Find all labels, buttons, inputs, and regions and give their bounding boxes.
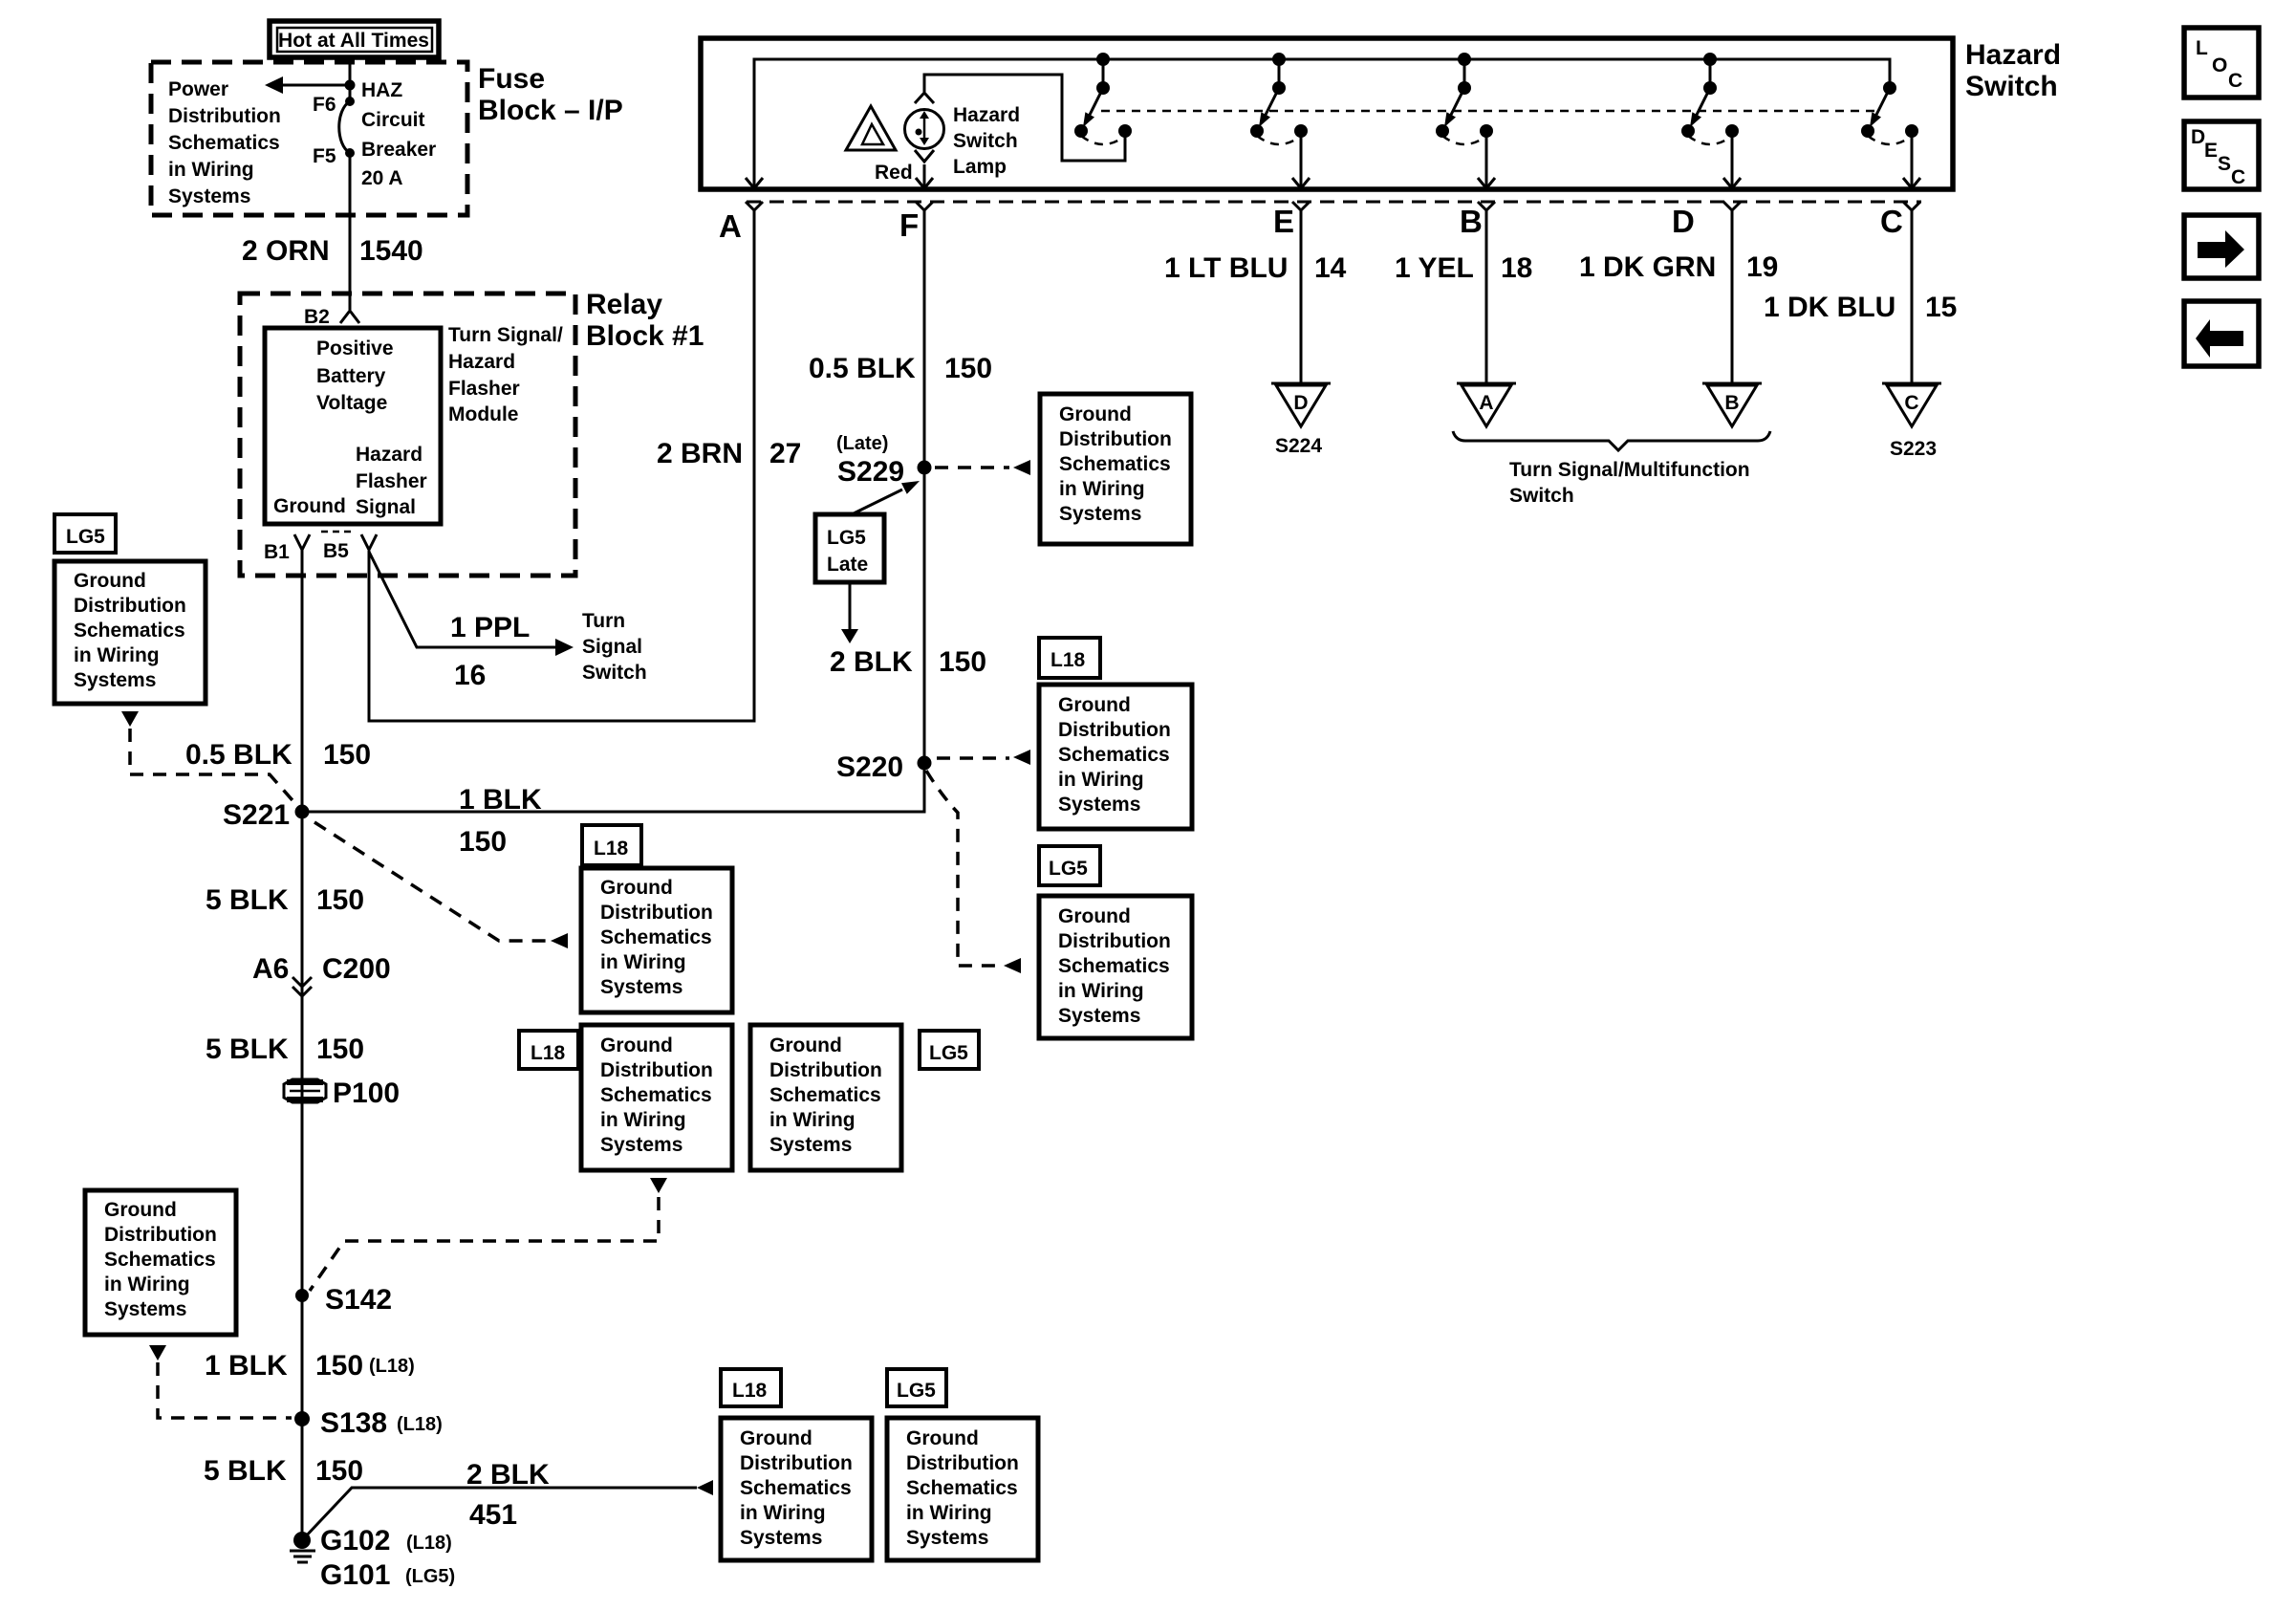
svg-text:in Wiring: in Wiring (769, 1109, 856, 1131)
label Relay Block #1 (586, 289, 704, 352)
svg-text:S223: S223 (1890, 438, 1937, 460)
svg-text:150: 150 (323, 739, 371, 771)
svg-text:Systems: Systems (104, 1298, 186, 1320)
label HAZ Circuit Breaker 20 A (361, 79, 436, 189)
svg-text:15: 15 (1925, 292, 1957, 323)
svg-text:0.5 BLK: 0.5 BLK (185, 739, 292, 771)
svg-text:Red: Red (875, 162, 913, 184)
svg-text:Switch: Switch (1965, 71, 2058, 102)
svg-text:S224: S224 (1275, 435, 1322, 457)
fuse block dashed box (151, 62, 467, 215)
label box LG5 (left) (54, 514, 116, 553)
wire 2 BLK 451 branch (302, 1480, 713, 1540)
svg-text:B1: B1 (264, 541, 290, 563)
svg-text:S: S (2218, 153, 2231, 175)
svg-text:Turn Signal/Multifunction: Turn Signal/Multifunction (1509, 459, 1750, 481)
svg-text:in Wiring: in Wiring (168, 159, 254, 181)
off-page triangle C (S223) (1882, 383, 1941, 426)
svg-text:2 BLK: 2 BLK (466, 1459, 550, 1491)
svg-text:Breaker: Breaker (361, 139, 436, 161)
svg-text:S142: S142 (325, 1284, 392, 1316)
svg-text:Systems: Systems (1058, 794, 1140, 816)
label Fuse Block - I/P (478, 63, 623, 126)
svg-text:F6: F6 (313, 94, 336, 116)
icon box LOC (2184, 28, 2259, 98)
svg-text:Schematics: Schematics (104, 1249, 216, 1271)
svg-text:Positive: Positive (316, 337, 394, 359)
svg-text:Schematics: Schematics (1059, 453, 1171, 475)
svg-text:E: E (1273, 204, 1294, 239)
svg-text:451: 451 (469, 1499, 517, 1531)
svg-text:A: A (719, 208, 742, 244)
off-page triangle A (1457, 383, 1516, 426)
svg-text:Schematics: Schematics (740, 1477, 852, 1499)
switch pole S1 lamp (1074, 59, 1132, 144)
wire 1 YEL 18 (pin B) (1485, 210, 1488, 382)
svg-text:L18: L18 (531, 1042, 566, 1064)
svg-text:Signal: Signal (356, 496, 416, 518)
svg-text:Distribution: Distribution (906, 1452, 1019, 1474)
svg-text:in Wiring: in Wiring (1058, 980, 1144, 1002)
svg-text:D: D (1672, 204, 1695, 239)
arrow from left box down (121, 711, 139, 727)
hazard switch box (701, 38, 1953, 189)
label 5 BLK 150 (206, 884, 364, 916)
svg-text:Ground: Ground (104, 1199, 177, 1221)
lamp connector Red (875, 150, 934, 188)
svg-text:Late: Late (827, 554, 868, 576)
note Power Distribution Schematics in Wiring Systems (168, 78, 281, 207)
label box LG5 Late (815, 514, 884, 582)
label box LG5 (mid lower) (920, 1031, 979, 1069)
icon box DESC (2184, 121, 2259, 189)
label Hazard Switch (1965, 39, 2061, 102)
wire 1 DK BLU 15 (pin C) (1911, 210, 1914, 382)
svg-text:L: L (2196, 37, 2208, 59)
svg-text:Schematics: Schematics (1058, 744, 1170, 766)
svg-text:B2: B2 (304, 306, 330, 328)
wire internal bus from pin A (754, 59, 1890, 188)
svg-text:Systems: Systems (740, 1527, 822, 1549)
svg-text:in Wiring: in Wiring (600, 1109, 686, 1131)
svg-text:Schematics: Schematics (906, 1477, 1018, 1499)
arrow from bottom left box down (149, 1345, 166, 1361)
svg-text:Ground: Ground (74, 570, 146, 592)
svg-text:Systems: Systems (600, 976, 682, 998)
svg-text:Switch: Switch (1509, 485, 1574, 507)
svg-text:Distribution: Distribution (1058, 719, 1171, 741)
svg-text:in Wiring: in Wiring (1058, 769, 1144, 791)
svg-text:O: O (2212, 54, 2227, 76)
svg-text:Hazard: Hazard (356, 444, 422, 466)
svg-text:Fuse: Fuse (478, 63, 545, 95)
svg-text:Flasher: Flasher (356, 470, 427, 492)
svg-text:C: C (2228, 70, 2242, 92)
svg-text:Distribution: Distribution (1059, 428, 1172, 450)
label box L18 (right) (1039, 638, 1100, 678)
splice S138 (L18) (294, 1407, 443, 1439)
svg-text:Schematics: Schematics (600, 926, 712, 948)
label 2 BLK 150 (830, 646, 986, 678)
svg-text:20 A: 20 A (361, 167, 403, 189)
svg-text:Distribution: Distribution (1058, 930, 1171, 952)
svg-text:B5: B5 (323, 540, 349, 562)
wire arrow to power distribution (265, 76, 356, 94)
svg-text:Ground: Ground (1058, 905, 1131, 927)
svg-text:Ground: Ground (769, 1034, 842, 1056)
svg-text:150: 150 (315, 1455, 363, 1487)
svg-text:2 BLK: 2 BLK (830, 646, 913, 678)
pin F5 (313, 145, 355, 167)
svg-text:1 PPL: 1 PPL (450, 612, 530, 643)
svg-text:14: 14 (1314, 252, 1347, 284)
dashed reference to S138 (158, 1362, 292, 1418)
svg-text:in Wiring: in Wiring (600, 951, 686, 973)
svg-text:2 ORN: 2 ORN (242, 235, 330, 267)
svg-text:C200: C200 (322, 953, 391, 985)
dashed reference S220 to LG5 ground distribution (926, 771, 1021, 973)
ground distribution box (mid upper L18) (581, 868, 732, 1012)
svg-text:Ground: Ground (1058, 694, 1131, 716)
svg-text:C: C (1880, 204, 1903, 239)
svg-text:Distribution: Distribution (168, 105, 281, 127)
relay block dashed box (240, 294, 575, 576)
svg-text:5 BLK: 5 BLK (206, 884, 289, 916)
svg-text:Signal: Signal (582, 636, 642, 658)
svg-text:P100: P100 (333, 1078, 400, 1109)
wire switch outputs to pins E B D C (1292, 131, 1310, 188)
svg-text:Systems: Systems (1058, 1005, 1140, 1027)
svg-text:5 BLK: 5 BLK (204, 1455, 287, 1487)
pin D connector (1672, 202, 1741, 239)
label box LG5 (right) (1039, 846, 1100, 885)
svg-text:D: D (2191, 126, 2205, 148)
label 2 BRN 27 (657, 438, 801, 469)
svg-text:150: 150 (315, 1350, 363, 1382)
svg-text:(L18): (L18) (369, 1356, 415, 1377)
svg-text:B: B (1724, 392, 1739, 414)
ground distribution box (bottom left) (85, 1190, 236, 1335)
svg-text:2 BRN: 2 BRN (657, 438, 743, 469)
grommet P100 (284, 1078, 400, 1109)
svg-text:B: B (1460, 204, 1483, 239)
pin F connector (899, 202, 933, 243)
svg-text:150: 150 (316, 884, 364, 916)
switch pole S2 E (1250, 59, 1308, 144)
svg-text:Switch: Switch (582, 662, 647, 684)
svg-text:18: 18 (1501, 252, 1532, 284)
label Hazard Switch Lamp (953, 104, 1020, 178)
svg-text:Distribution: Distribution (600, 1059, 713, 1081)
svg-text:Ground: Ground (600, 1034, 673, 1056)
svg-text:19: 19 (1746, 251, 1778, 283)
svg-text:S229: S229 (837, 456, 904, 488)
wire from hot feed to breaker (349, 56, 352, 101)
pin C connector (1880, 202, 1920, 239)
pin E connector (1273, 202, 1310, 239)
label 0.5 BLK 150 (B1) (185, 739, 371, 771)
dashed reference to S142 (310, 1197, 659, 1291)
svg-text:C: C (2231, 166, 2245, 188)
svg-text:Lamp: Lamp (953, 156, 1007, 178)
svg-text:Block – I/P: Block – I/P (478, 95, 623, 126)
svg-text:E: E (2204, 140, 2218, 162)
wire 2 ORN 1540 (349, 153, 352, 310)
pin B1 connector (264, 534, 310, 563)
svg-text:Systems: Systems (74, 669, 156, 691)
svg-text:L18: L18 (732, 1380, 768, 1402)
svg-text:Voltage: Voltage (316, 392, 387, 414)
svg-text:F: F (899, 207, 919, 243)
svg-text:Ground: Ground (600, 877, 673, 899)
svg-text:Ground: Ground (273, 495, 346, 517)
svg-text:S138: S138 (320, 1407, 387, 1439)
svg-text:1 LT BLU: 1 LT BLU (1164, 252, 1288, 284)
pin B2 connector (304, 306, 359, 328)
ground distribution box (bottom LG5) (887, 1418, 1038, 1560)
dashed reference S221 to L18 box (314, 822, 568, 948)
svg-text:Schematics: Schematics (769, 1084, 881, 1106)
svg-text:Ground: Ground (740, 1427, 812, 1449)
svg-text:Distribution: Distribution (600, 902, 713, 924)
svg-text:D: D (1293, 392, 1308, 414)
pin A connector (719, 202, 763, 244)
svg-text:Schematics: Schematics (168, 132, 280, 154)
svg-text:Flasher: Flasher (448, 378, 520, 400)
ground distribution box (S220 L18 ref) (1039, 685, 1192, 829)
label Hazard Flasher Signal (356, 444, 427, 518)
off-page triangle B (1702, 383, 1762, 426)
switch pole S3 B (1436, 59, 1493, 144)
svg-text:Ground: Ground (906, 1427, 979, 1449)
label 5 BLK 150 (3) (204, 1455, 363, 1487)
svg-text:Hazard: Hazard (953, 104, 1020, 126)
node Hot at All Times feed box (270, 21, 439, 57)
wire 1 LT BLU 14 (pin E) (1300, 210, 1303, 382)
svg-text:16: 16 (454, 660, 486, 691)
svg-text:1 BLK: 1 BLK (205, 1350, 288, 1382)
svg-text:Distribution: Distribution (104, 1224, 217, 1246)
label box L18 (mid upper) (582, 825, 641, 865)
off-page triangle D (S224) (1271, 383, 1331, 426)
connector dashed line below hazard switch (747, 201, 1921, 204)
svg-text:in Wiring: in Wiring (74, 644, 160, 666)
svg-text:1 YEL: 1 YEL (1395, 252, 1474, 284)
label Turn Signal Switch (582, 610, 647, 684)
svg-text:Hot at All Times: Hot at All Times (278, 30, 429, 52)
svg-text:150: 150 (316, 1034, 364, 1065)
svg-text:LG5: LG5 (827, 527, 866, 549)
svg-text:Systems: Systems (168, 185, 250, 207)
svg-text:in Wiring: in Wiring (104, 1274, 190, 1295)
wire 1 PPL 16 to turn signal switch (369, 552, 574, 656)
svg-text:Schematics: Schematics (600, 1084, 712, 1106)
brace turn signal/multifunction switch (1453, 431, 1770, 450)
svg-text:LG5: LG5 (929, 1042, 968, 1064)
svg-text:S220: S220 (836, 751, 903, 783)
svg-text:LG5: LG5 (897, 1380, 936, 1402)
svg-text:Ground: Ground (1059, 403, 1132, 425)
svg-text:27: 27 (769, 438, 801, 469)
svg-text:150: 150 (939, 646, 986, 678)
wire 2 BRN 27 from hazard switch pin A to B5 (369, 210, 754, 721)
svg-text:Circuit: Circuit (361, 109, 425, 131)
svg-text:A6: A6 (252, 953, 289, 985)
svg-text:LG5: LG5 (66, 526, 105, 548)
ground distribution box (S229 ref) (1040, 394, 1191, 544)
label 0.5 BLK 150 (809, 353, 992, 384)
svg-text:in Wiring: in Wiring (1059, 478, 1145, 500)
svg-text:Turn Signal/: Turn Signal/ (448, 324, 563, 346)
svg-text:Hazard: Hazard (448, 351, 515, 373)
svg-text:(LG5): (LG5) (405, 1566, 455, 1587)
svg-text:Power: Power (168, 78, 228, 100)
label 1 BLK 150 (459, 784, 542, 858)
svg-text:(L18): (L18) (406, 1533, 452, 1554)
ground distribution box (mid lower L18) (581, 1025, 732, 1170)
dashed reference to S221 (130, 729, 299, 808)
hazard switch lamp (905, 93, 944, 149)
svg-text:Systems: Systems (1059, 503, 1141, 525)
svg-text:L18: L18 (1051, 649, 1086, 671)
svg-text:1 DK BLU: 1 DK BLU (1764, 292, 1895, 323)
icon box left arrow (2184, 301, 2259, 366)
label Turn Signal/Hazard Flasher Module (448, 324, 563, 425)
svg-text:G102: G102 (320, 1525, 390, 1557)
icon box right arrow (2184, 215, 2259, 278)
svg-text:5 BLK: 5 BLK (206, 1034, 289, 1065)
pin B5 connector (321, 532, 377, 562)
ground G102 G101 (290, 1525, 455, 1591)
arrow LG5 Late down to 2 BLK (841, 582, 858, 643)
svg-text:Block #1: Block #1 (586, 320, 704, 352)
svg-text:Distribution: Distribution (769, 1059, 882, 1081)
svg-text:Schematics: Schematics (1058, 955, 1170, 977)
svg-text:A: A (1479, 392, 1493, 414)
svg-text:Hazard: Hazard (1965, 39, 2061, 71)
pin B connector (1460, 202, 1495, 239)
wire lamp to switch S1 right contact (924, 75, 1125, 161)
svg-text:C: C (1904, 392, 1918, 414)
svg-text:Distribution: Distribution (74, 595, 186, 617)
splice S229 (Late) (836, 433, 932, 488)
switch pole S4 D (1681, 59, 1739, 144)
svg-text:Switch: Switch (953, 130, 1018, 152)
svg-text:Module: Module (448, 403, 519, 425)
switch pole S5 C (1861, 59, 1918, 144)
turn signal hazard flasher module box (265, 328, 441, 524)
svg-text:in Wiring: in Wiring (740, 1502, 826, 1524)
svg-text:1 BLK: 1 BLK (459, 784, 542, 816)
label 2 ORN 1540 (242, 235, 423, 267)
svg-text:F5: F5 (313, 145, 336, 167)
svg-text:Systems: Systems (769, 1134, 852, 1156)
label 5 BLK 150 (2) (206, 1034, 364, 1065)
splice S142 (295, 1284, 392, 1316)
wire 0.5 BLK 150 pin F down to S221 (302, 210, 924, 812)
svg-text:150: 150 (944, 353, 992, 384)
svg-text:HAZ: HAZ (361, 79, 402, 101)
label Positive Battery Voltage (316, 337, 394, 414)
svg-text:(Late): (Late) (836, 433, 888, 454)
switch linkage dashed line (1101, 110, 1879, 113)
wire B1 ground wire down (301, 550, 304, 1540)
svg-text:LG5: LG5 (1049, 858, 1088, 880)
label box L18 (mid lower) (519, 1031, 578, 1069)
circuit breaker HAZ 20 A (339, 101, 350, 153)
svg-text:0.5 BLK: 0.5 BLK (809, 353, 916, 384)
svg-text:Systems: Systems (600, 1134, 682, 1156)
svg-text:Turn: Turn (582, 610, 625, 632)
ground distribution box (S220 LG5 ref) (1039, 896, 1192, 1038)
label 1 BLK 150 (L18) (205, 1350, 415, 1382)
svg-text:1 DK GRN: 1 DK GRN (1579, 251, 1716, 283)
svg-text:(L18): (L18) (397, 1414, 443, 1435)
ground distribution box (bottom L18) (721, 1418, 872, 1560)
label box LG5 (bottom) (887, 1369, 946, 1406)
pin F6 (313, 94, 355, 116)
svg-text:Systems: Systems (906, 1527, 988, 1549)
svg-text:Distribution: Distribution (740, 1452, 853, 1474)
splice S220 (836, 751, 932, 783)
wire 1 DK GRN 19 (pin D) (1731, 210, 1734, 382)
dashed reference S220 to L18 ground distribution (937, 750, 1030, 765)
svg-text:G101: G101 (320, 1559, 390, 1591)
ground distribution box (mid lower LG5) (750, 1025, 901, 1170)
svg-text:S221: S221 (223, 799, 290, 831)
splice S221 (223, 799, 310, 831)
svg-text:Schematics: Schematics (74, 620, 185, 642)
dashed reference S229 to ground distribution (935, 460, 1030, 475)
warning triangle icon (846, 106, 896, 150)
label 1 PPL 16 (450, 612, 530, 691)
svg-text:Relay: Relay (586, 289, 662, 320)
svg-text:Battery: Battery (316, 365, 386, 387)
svg-text:150: 150 (459, 826, 507, 858)
arrow LG5 Late to S229 (852, 481, 920, 514)
svg-text:in Wiring: in Wiring (906, 1502, 992, 1524)
connector C200 pin A6 (252, 953, 391, 996)
label box L18 (bottom) (721, 1369, 781, 1406)
svg-text:1540: 1540 (359, 235, 423, 267)
ground distribution box (left LG5) (54, 561, 206, 704)
svg-text:L18: L18 (594, 838, 629, 860)
wire pin A arrow inside box (746, 178, 763, 188)
label 2 BLK 451 (466, 1459, 550, 1531)
arrow from mid lower box down to S142 path (650, 1178, 667, 1193)
